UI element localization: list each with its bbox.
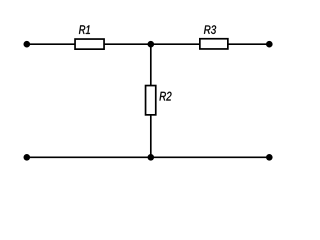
node terminal top-right bbox=[266, 41, 273, 48]
resistor R2 label bbox=[160, 92, 172, 101]
wire top rail left segment bbox=[27, 43, 75, 45]
node junction bottom-middle bbox=[148, 154, 155, 161]
node terminal bottom-left bbox=[24, 154, 31, 161]
resistor R3 bbox=[200, 39, 228, 49]
wire vertical lower segment bbox=[150, 115, 152, 157]
resistor R1 label bbox=[79, 25, 90, 34]
wire vertical upper segment bbox=[150, 44, 152, 85]
wire top rail right segment bbox=[228, 43, 269, 45]
resistor R2 bbox=[146, 86, 156, 115]
wire top rail middle segment bbox=[105, 43, 200, 45]
node terminal bottom-right bbox=[266, 154, 273, 161]
wire bottom rail bbox=[27, 156, 269, 158]
resistor R1 bbox=[75, 39, 104, 49]
node terminal top-left bbox=[24, 41, 31, 48]
node junction top-middle bbox=[148, 41, 155, 48]
resistor R3 label bbox=[204, 25, 216, 34]
